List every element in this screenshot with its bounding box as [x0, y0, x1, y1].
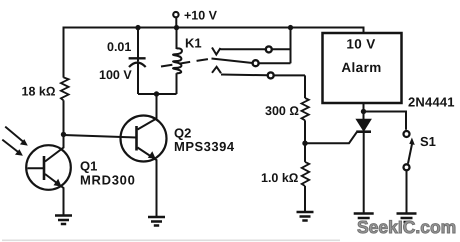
svg-text:2N4441: 2N4441 [408, 95, 455, 110]
resistor 18 k [61, 56, 69, 135]
svg-text:SeekIC.com: SeekIC.com [357, 217, 456, 237]
relay contact arm top [212, 48, 265, 55]
transistor Q2 MPS3394 [121, 116, 167, 217]
label Q1 [80, 159, 97, 174]
label 100 V [99, 68, 132, 82]
label 10 V [346, 37, 375, 52]
label 300 Ohm [265, 104, 299, 118]
ground under Q1 [55, 216, 72, 225]
svg-text:+10 V: +10 V [184, 9, 218, 23]
label MRD300 [80, 173, 136, 188]
relay contact arm bottom [212, 67, 268, 76]
svg-text:S1: S1 [420, 134, 436, 149]
label 1.0 kOhm [261, 171, 299, 185]
svg-text:300 Ω: 300 Ω [265, 104, 299, 118]
svg-text:1.0 kΩ: 1.0 kΩ [261, 171, 299, 185]
label 18 kOhm [22, 85, 56, 99]
terminal +10V [173, 12, 179, 30]
wire alarm box to SCR anode [363, 103, 365, 120]
resistor 1.0 kOhm [302, 143, 310, 212]
wire gate to SCR [305, 132, 357, 143]
capacitor C1 0.01 [129, 28, 146, 95]
label Alarm [341, 60, 381, 75]
light arrow 2 [2, 140, 23, 156]
wire junction down to Q2 collector [156, 94, 158, 119]
node +10V to contacts junction [288, 25, 293, 30]
wire to Q2 base [64, 135, 137, 138]
label +10 V [184, 9, 218, 23]
watermark SeekIC.com [357, 217, 456, 237]
svg-text:MRD300: MRD300 [80, 173, 136, 188]
svg-text:K1: K1 [185, 36, 202, 51]
relay fixed contact top [266, 46, 291, 52]
label MPS3394 [174, 139, 235, 154]
label S1 [420, 134, 436, 149]
node Q2 collector junction [154, 91, 159, 96]
SCR 2N4441 [356, 119, 371, 213]
label Q2 [174, 126, 191, 141]
svg-text:0.01: 0.01 [107, 40, 131, 54]
wire contacts vertical feed [290, 28, 292, 64]
wire top +10V rail [64, 28, 364, 57]
switch S1 [404, 131, 415, 213]
relay fixed contact middle [253, 60, 291, 66]
light arrow 1 [5, 127, 28, 146]
relay fixed contact bottom [268, 72, 305, 78]
label K1 [185, 36, 202, 51]
svg-text:10 V: 10 V [346, 37, 375, 52]
alarm box [323, 33, 402, 103]
label 0.01 [107, 40, 131, 54]
svg-text:Q1: Q1 [80, 159, 97, 174]
svg-text:18 kΩ: 18 kΩ [22, 85, 56, 99]
ground under 1.0k [297, 212, 314, 221]
svg-text:100 V: 100 V [99, 68, 132, 82]
ground under SCR [354, 214, 374, 223]
ground under Q2 [148, 217, 165, 226]
transistor Q1 MRD300 [26, 135, 71, 216]
node gate junction [302, 141, 307, 146]
node cap top [135, 25, 140, 30]
ground under S1 [397, 214, 417, 223]
node junction Q1 collector / Q2 base [61, 132, 66, 137]
svg-text:Alarm: Alarm [341, 60, 381, 75]
scan artifact bottom band [2, 239, 340, 241]
relay coil K1 [173, 28, 182, 95]
node anode junction [361, 109, 366, 114]
label 2N4441 [408, 95, 455, 110]
resistor 300 Ohm [302, 75, 309, 143]
wire anode to S1 [364, 112, 407, 130]
wire capacitor bottom to coil bottom [138, 93, 177, 95]
dashed actuator linkage [161, 59, 210, 67]
svg-text:MPS3394: MPS3394 [174, 139, 235, 154]
relay moving contact middle [212, 59, 253, 64]
